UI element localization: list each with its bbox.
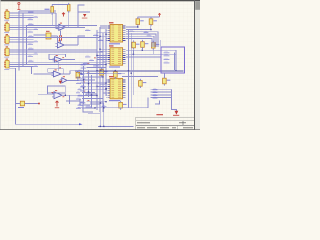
net label	[147, 35, 152, 37]
wire stub	[97, 85, 107, 87]
pin number 4	[59, 66, 61, 69]
scrollbar right	[195, 1, 200, 129]
wire X1 pin 3	[9, 16, 33, 18]
net label band	[78, 70, 84, 72]
net label band	[78, 88, 82, 90]
net label sheet	[164, 58, 170, 60]
wire IC1 right bundle	[126, 34, 156, 47]
wire wire y113.7	[88, 113, 100, 115]
op-amp U2B	[52, 90, 64, 99]
wire bottom mid bus	[98, 125, 134, 127]
capacitor C6	[100, 68, 104, 77]
component S1 (yellow box)	[46, 33, 51, 39]
junction	[105, 89, 106, 90]
junction	[105, 64, 106, 65]
net label band	[81, 64, 86, 66]
ref text IC1	[109, 22, 114, 23]
pin number mid	[94, 56, 96, 59]
top wire into U1A inv input	[56, 13, 59, 29]
net label band	[78, 79, 84, 81]
wire U1A out right	[69, 26, 78, 28]
net label X3a	[28, 35, 34, 37]
wire stub	[105, 29, 108, 31]
wire drop x100.3	[99, 103, 101, 126]
junction	[115, 70, 116, 71]
wire X2 pin 2	[9, 27, 33, 29]
wire stub	[105, 94, 108, 96]
wire feeder x97	[96, 30, 98, 110]
wire stub	[105, 88, 108, 90]
wire U2B input wire	[38, 93, 54, 95]
wire U1D in wire	[34, 73, 54, 75]
pin number	[88, 62, 90, 65]
wire loop right drop	[64, 93, 66, 95]
wire X2 pin 1	[9, 24, 33, 26]
net label X5a	[28, 60, 34, 62]
junction	[100, 102, 101, 103]
net label arrow on bottom rail	[79, 123, 83, 125]
net label	[28, 31, 34, 33]
value text C9	[167, 80, 171, 81]
wire long horizontal	[27, 61, 107, 63]
wire X4 pin 1	[9, 49, 33, 51]
net label	[93, 34, 99, 36]
net label band	[78, 104, 83, 106]
wire dense band row	[84, 95, 98, 97]
net label	[28, 43, 34, 45]
wire C4 drop	[141, 48, 143, 51]
net label band	[81, 73, 85, 75]
frame sheet symbol	[161, 47, 185, 73]
junction	[102, 76, 103, 77]
window left border	[0, 0, 2, 130]
wire dense band row	[82, 91, 95, 93]
pin number U2B out	[63, 95, 65, 98]
junction	[105, 82, 106, 83]
resistor R4 (horizontal)	[16, 101, 40, 106]
IC IC2	[107, 48, 125, 65]
power symbol P4	[55, 101, 59, 108]
wire stub	[105, 52, 108, 54]
wire X4 pin 2	[9, 51, 33, 53]
wire U1C out	[62, 59, 75, 61]
value text IC2	[109, 66, 120, 67]
value text X2	[4, 31, 9, 34]
net label	[80, 78, 86, 80]
junction	[88, 91, 89, 92]
U2B feedback loop	[48, 86, 66, 93]
value text C5	[118, 73, 122, 74]
wire top feed horizontal	[19, 10, 56, 12]
window bottom border	[0, 128, 200, 131]
wire U2B out	[62, 94, 86, 96]
U1C feedback	[49, 54, 66, 59]
net label	[80, 90, 86, 92]
value text IC3	[109, 100, 120, 101]
net label band	[76, 92, 80, 94]
ref text S1	[46, 31, 50, 32]
wire X2 pin 3	[9, 29, 33, 31]
wire IC1 right bundle	[126, 38, 152, 46]
power symbol P5 small	[82, 14, 88, 19]
wire stub	[100, 50, 107, 52]
wire S1 out	[51, 35, 57, 37]
ref text X4	[6, 46, 8, 47]
wire sheet to C9	[163, 73, 165, 78]
wire long horizontal	[27, 49, 98, 51]
net label	[28, 18, 34, 20]
wire stub	[97, 54, 107, 56]
wire long horizontal	[27, 63, 101, 65]
wire X3 pin 1	[9, 37, 33, 39]
pin number	[83, 90, 85, 93]
wire right drop x176	[175, 50, 177, 71]
value text IC1	[109, 43, 120, 44]
wire S1 to U1B	[56, 36, 58, 44]
value text C7	[80, 74, 84, 75]
junction	[99, 36, 100, 37]
wire into sheet top	[160, 40, 162, 47]
power symbol P1 (top)	[17, 2, 20, 9]
wire dense band row	[87, 67, 107, 69]
wire labeled bus right	[151, 97, 172, 99]
wire U2B out down	[69, 95, 71, 104]
junction	[128, 70, 129, 71]
wire stub	[105, 63, 108, 65]
pin number U1C out	[62, 56, 64, 59]
junction	[150, 29, 151, 30]
capacitor C8	[139, 79, 143, 88]
junction	[103, 107, 104, 108]
junction	[88, 83, 89, 84]
wire left rail down to bottom bus	[9, 68, 79, 124]
value text R4	[18, 107, 24, 108]
net label band	[81, 67, 87, 69]
wire stub	[105, 79, 108, 81]
wire C to D power rail	[57, 62, 59, 71]
power symbol P2	[62, 13, 65, 17]
resistor R2	[67, 3, 70, 13]
corner wire near title block	[155, 101, 160, 105]
net label band	[81, 101, 85, 103]
net label bus	[153, 91, 158, 93]
capacitor C4	[141, 40, 145, 49]
junction	[131, 73, 132, 74]
wire stub	[103, 92, 107, 94]
wire stub	[100, 35, 107, 37]
wire IC1 right bundle	[126, 32, 158, 47]
wire stub	[97, 59, 107, 61]
junction	[96, 95, 97, 96]
wire wire y76.5	[122, 76, 158, 78]
net label	[93, 65, 99, 67]
junction	[103, 126, 104, 127]
wire dense band row	[87, 64, 107, 66]
net label bus	[153, 89, 158, 91]
junction red dot	[38, 103, 40, 105]
capacitor C7	[76, 71, 80, 80]
wire long horizontal	[27, 51, 104, 53]
net label below caps	[129, 30, 135, 32]
value text C8	[143, 82, 147, 83]
wire dense band row	[87, 101, 107, 103]
wire feeder x100	[99, 27, 101, 112]
wire dense band row	[82, 76, 103, 78]
wire long horizontal	[27, 12, 57, 14]
wire loop left drop	[47, 93, 49, 94]
wire rail x131 right of ICs	[130, 33, 132, 108]
stacked bus down to arrow	[171, 89, 176, 111]
net label band	[76, 107, 81, 109]
wire wire y103	[90, 102, 104, 104]
net label X4b	[34, 53, 39, 55]
wire dense band row	[87, 85, 107, 87]
op-amp U1C	[53, 55, 64, 62]
op-amp U2A	[60, 76, 69, 83]
net label	[80, 102, 86, 104]
junction	[105, 101, 106, 102]
wire R1 to op-amp U1A in	[51, 15, 53, 26]
connector X4	[4, 48, 9, 56]
wire U1D out	[61, 73, 70, 75]
capacitor C10	[119, 101, 123, 110]
wire U1B out	[64, 44, 78, 46]
wire X5 pin 1	[9, 61, 33, 63]
wire R2 to U1A out node	[68, 13, 70, 27]
schematic canvas background	[0, 0, 200, 130]
op-amp U1D	[52, 69, 64, 77]
wire vertical in band	[91, 75, 93, 108]
net label sheet	[164, 55, 170, 57]
junction	[100, 70, 101, 71]
wire U1C in	[49, 59, 55, 61]
wire R3 to U1B	[60, 40, 62, 43]
wire trunk C vertical	[26, 25, 28, 64]
wire into S1	[34, 34, 47, 36]
net label band	[76, 82, 81, 84]
junction	[175, 70, 176, 71]
title block	[136, 117, 200, 129]
junction	[96, 86, 97, 87]
ref text X5	[6, 59, 8, 60]
IC1 to C1	[126, 26, 138, 27]
wire rail x134 right of ICs	[133, 50, 135, 95]
wire long horizontal	[27, 37, 101, 39]
wire X1 pin 1	[9, 12, 33, 14]
IC1 to C2	[126, 26, 151, 30]
resistor R3 (red outline)	[60, 36, 62, 40]
pin number	[88, 71, 90, 74]
value text C10	[123, 104, 127, 105]
wire stub	[105, 81, 108, 83]
wire stub	[100, 27, 107, 29]
wire labeled bus right	[151, 91, 172, 93]
wire stub	[105, 96, 108, 98]
ref text IC2	[109, 45, 114, 46]
connector X3	[4, 36, 9, 44]
value text S1	[41, 35, 46, 36]
wire stub	[105, 90, 108, 92]
wire dense band row	[84, 104, 101, 106]
wire rail x128 right of ICs	[127, 30, 129, 108]
wire U2A out	[67, 79, 79, 81]
wire labeled bus right	[151, 88, 172, 90]
ref text IC3	[109, 76, 114, 77]
resistor R1	[51, 5, 54, 16]
net label band	[76, 76, 81, 78]
wire stub	[105, 40, 108, 42]
pin number	[83, 81, 85, 84]
value text C1	[140, 20, 144, 21]
net label sheet	[164, 52, 170, 54]
up to y12	[78, 12, 90, 27]
ref text X1	[6, 9, 8, 10]
junction	[94, 107, 95, 108]
junction	[96, 55, 97, 56]
wire to U1A input	[52, 25, 59, 27]
value text X4	[4, 56, 9, 59]
net label X4a	[28, 48, 34, 50]
junction	[142, 50, 143, 51]
net label band	[81, 85, 87, 87]
junction	[133, 54, 134, 55]
wire dense band row	[84, 79, 96, 81]
U1D feedback loop	[48, 69, 63, 74]
junction	[105, 34, 106, 35]
op-amp U1B	[55, 40, 66, 48]
net label X1b	[34, 16, 39, 18]
wire dense band row	[84, 70, 98, 72]
wire vertical in band	[83, 66, 85, 104]
wire stub	[100, 83, 107, 85]
net label X1a	[28, 11, 34, 13]
junction	[137, 26, 138, 27]
wire R1-R2 top link	[52, 4, 68, 6]
net label	[28, 55, 34, 57]
sheet inner vertical	[174, 52, 176, 70]
wire IC1 right bundle	[126, 36, 154, 47]
wire X5 pin 2	[9, 63, 33, 65]
pin number 8	[59, 63, 61, 66]
wire X3 pin 3	[9, 41, 33, 43]
wire IC2 to sheet y57	[126, 56, 161, 58]
wire X5 pin 3	[9, 66, 33, 68]
wire X3 pin 2	[9, 39, 33, 41]
capacitor C1	[136, 17, 140, 26]
net label	[80, 86, 86, 88]
value text X1	[4, 19, 9, 22]
value text C11	[156, 44, 160, 45]
net label band	[78, 95, 84, 97]
pin number U1C in	[55, 59, 57, 62]
value text X3	[4, 43, 9, 46]
wire stub	[97, 56, 107, 58]
net label	[144, 31, 149, 33]
wire X4 pin 3	[9, 53, 33, 55]
net label X3b	[34, 41, 39, 43]
net label bus	[153, 97, 158, 99]
wire long horizontal	[27, 24, 98, 26]
capacitor C5	[114, 70, 118, 79]
wire C1-C2 top link	[138, 16, 151, 18]
ref text X3	[6, 34, 8, 35]
wire bus second y73.2	[78, 72, 125, 74]
connector X1	[4, 11, 9, 19]
connector X2	[4, 24, 9, 32]
junction	[83, 79, 84, 80]
junction	[96, 70, 97, 71]
U2B out up	[86, 94, 97, 95]
net label X5b	[34, 65, 39, 67]
power symbol P3	[158, 13, 160, 16]
net label bus	[153, 94, 158, 96]
IC IC1	[107, 25, 125, 43]
net label mid1	[85, 56, 91, 58]
junction	[100, 126, 101, 127]
capacitor C3	[132, 40, 136, 49]
wire X1 pin 2	[9, 14, 33, 16]
wire vertical in band	[88, 70, 90, 97]
long wire y107.8	[78, 98, 148, 108]
ref text X2	[6, 22, 8, 23]
wire stub	[97, 31, 107, 33]
net label	[86, 106, 92, 108]
junction	[105, 88, 106, 89]
wire bus y54.3 long	[126, 53, 176, 55]
U1D out to bus	[70, 71, 75, 74]
wire bend down to U1D	[31, 67, 33, 74]
value text C6	[104, 71, 108, 72]
wire long bus y70.8	[75, 70, 184, 72]
junction	[99, 49, 100, 50]
wire stub	[105, 37, 108, 39]
scrollbar thumb (top)	[195, 1, 200, 10]
wire C3 drop	[132, 50, 134, 54]
value text C3	[136, 44, 140, 45]
wire dense band row	[87, 73, 107, 75]
wire trunk B vertical	[22, 13, 24, 66]
net label X2a	[28, 23, 34, 25]
title block text rows	[137, 122, 193, 128]
net label sheet	[164, 62, 170, 64]
wire feeder x106	[105, 29, 107, 96]
junction	[65, 95, 66, 96]
U1B out up	[78, 36, 85, 45]
IC IC3	[107, 78, 125, 98]
wire wire y101	[66, 100, 80, 102]
power arrow red near U2A	[59, 81, 62, 84]
capacitor C9	[163, 76, 167, 85]
wire trunk A vertical	[18, 11, 20, 71]
stair 1	[80, 99, 90, 105]
wire stub	[100, 48, 107, 50]
red text above title block	[156, 114, 163, 115]
op-amp U1A	[57, 23, 68, 31]
net label mid3	[83, 62, 89, 64]
value text C4	[145, 43, 149, 44]
window top border	[0, 0, 200, 1]
net label	[85, 29, 91, 31]
wire U1A to R3	[60, 30, 62, 35]
connector X5	[4, 60, 9, 68]
net label	[98, 39, 104, 41]
wire to P3	[151, 16, 160, 18]
value text R1	[45, 9, 50, 10]
wire stub	[105, 33, 108, 35]
pin number	[88, 99, 90, 102]
net label band	[76, 98, 81, 100]
net label X2b	[34, 28, 39, 30]
